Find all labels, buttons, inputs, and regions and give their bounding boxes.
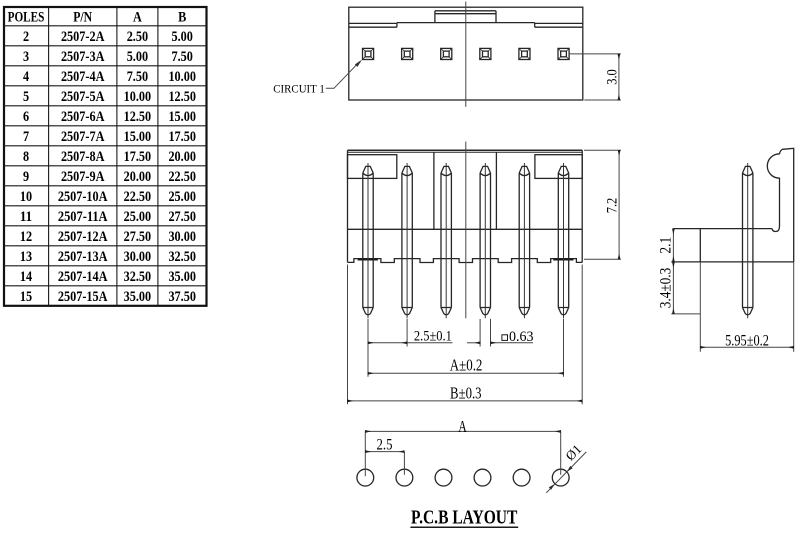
crush rib mark under pin 6 (553, 258, 573, 260)
svg-text:11: 11 (20, 209, 32, 225)
pin hole square 5 (519, 48, 530, 59)
top view body (349, 7, 583, 100)
svg-text:27.50: 27.50 (168, 209, 196, 225)
dimension 3.0 (569, 54, 621, 100)
svg-text:5.00: 5.00 (172, 29, 193, 45)
svg-text:10.00: 10.00 (168, 69, 196, 85)
pin 5 (519, 163, 529, 318)
pcb hole 2 (396, 469, 413, 486)
svg-text:32.50: 32.50 (124, 269, 152, 285)
svg-text:2: 2 (23, 29, 29, 45)
svg-text:A: A (133, 9, 142, 25)
svg-text:2507-2A: 2507-2A (61, 29, 105, 45)
svg-text:2507-4A: 2507-4A (61, 69, 105, 85)
svg-text:17.50: 17.50 (168, 129, 196, 145)
svg-text:15.00: 15.00 (168, 109, 196, 125)
svg-text:32.50: 32.50 (168, 249, 196, 265)
svg-text:CIRCUIT 1: CIRCUIT 1 (273, 81, 325, 95)
svg-text:2507-6A: 2507-6A (61, 109, 105, 125)
svg-text:3.0: 3.0 (604, 69, 620, 85)
svg-text:5.95±0.2: 5.95±0.2 (725, 333, 769, 350)
pcb hole 6 (552, 469, 569, 486)
svg-text:7.50: 7.50 (172, 49, 193, 65)
svg-text:2507-15A: 2507-15A (58, 289, 108, 305)
svg-text:2507-12A: 2507-12A (58, 229, 108, 245)
dimension Ø1 leader (546, 442, 586, 493)
front view top double line (348, 150, 583, 152)
svg-text:22.50: 22.50 (124, 189, 152, 205)
front view body sides (348, 150, 583, 262)
svg-text:6: 6 (23, 109, 30, 125)
svg-text:35.00: 35.00 (168, 269, 196, 285)
pin hole square 4 (480, 48, 491, 59)
front view left end recess (348, 155, 397, 179)
svg-text:7.2: 7.2 (605, 198, 621, 214)
top view center tab (435, 11, 496, 23)
table row dividers (4, 26, 207, 286)
svg-text:2507-9A: 2507-9A (61, 169, 105, 185)
pin 3 (441, 163, 451, 318)
front view partitions (434, 152, 497, 229)
svg-text:17.50: 17.50 (124, 149, 152, 165)
svg-text:0.63: 0.63 (509, 329, 534, 345)
crush rib mark under pin 1 (358, 258, 378, 260)
svg-text:30.00: 30.00 (124, 249, 152, 265)
svg-text:25.00: 25.00 (168, 189, 196, 205)
svg-text:2.5±0.1: 2.5±0.1 (414, 329, 452, 345)
pcb hole 4 (474, 469, 491, 486)
top view section centerline (465, 2, 467, 107)
pin hole square 2 (402, 48, 413, 59)
svg-text:2507-11A: 2507-11A (58, 209, 108, 225)
svg-text:12.50: 12.50 (124, 109, 152, 125)
svg-text:P/N: P/N (73, 9, 92, 25)
svg-text:25.00: 25.00 (124, 209, 152, 225)
front view section centerline (465, 142, 467, 319)
dimension A±0.2 (368, 319, 564, 377)
svg-text:2507-7A: 2507-7A (61, 129, 105, 145)
svg-text:37.50: 37.50 (168, 289, 196, 305)
svg-text:2.5: 2.5 (377, 437, 393, 454)
svg-text:2.50: 2.50 (127, 29, 148, 45)
svg-text:9: 9 (23, 169, 29, 185)
svg-text:20.00: 20.00 (168, 149, 196, 165)
svg-text:2507-8A: 2507-8A (61, 149, 105, 165)
svg-text:35.00: 35.00 (124, 289, 152, 305)
side view wall profile (767, 148, 793, 262)
table outer border (4, 7, 207, 306)
dimension 2.5±0.1 (368, 319, 453, 377)
svg-text:P.C.B LAYOUT: P.C.B LAYOUT (411, 508, 517, 529)
side view pin tip level line (671, 313, 700, 315)
svg-text:13: 13 (20, 249, 32, 265)
pin hole square 6 (558, 48, 569, 59)
svg-text:12: 12 (20, 229, 32, 245)
svg-text:27.50: 27.50 (124, 229, 152, 245)
svg-text:14: 14 (20, 269, 33, 285)
dimension 2.5 (pcb) (365, 437, 404, 475)
pin 2 (402, 163, 412, 318)
side view base block (671, 229, 793, 262)
front view right end recess (535, 155, 582, 179)
pcb hole 3 (435, 469, 452, 486)
svg-text:8: 8 (23, 149, 29, 165)
title P.C.B LAYOUT (410, 508, 518, 529)
side view pin (743, 163, 753, 318)
dimension B±0.3 (348, 265, 583, 405)
svg-text:15.00: 15.00 (124, 129, 152, 145)
front view bottom edge with standoff notches (348, 259, 583, 263)
svg-text:3: 3 (23, 49, 29, 65)
svg-text:12.50: 12.50 (168, 89, 196, 105)
svg-text:2507-14A: 2507-14A (58, 269, 108, 285)
svg-text:22.50: 22.50 (168, 169, 196, 185)
pin 1 (363, 163, 373, 318)
svg-text:10.00: 10.00 (124, 89, 152, 105)
dimension 3.4±0.3 (657, 262, 674, 314)
table text (8, 9, 196, 304)
svg-text:B±0.3: B±0.3 (450, 383, 482, 402)
svg-text:2507-5A: 2507-5A (61, 89, 105, 105)
svg-text:5.00: 5.00 (127, 49, 148, 65)
pcb hole 1 (357, 469, 374, 486)
svg-text:7: 7 (23, 129, 30, 145)
pin 6 (558, 163, 568, 318)
pin hole square 3 (441, 48, 452, 59)
svg-text:30.00: 30.00 (168, 229, 196, 245)
svg-text:B: B (178, 9, 186, 25)
svg-text:5: 5 (23, 89, 29, 105)
pin hole square 1 (363, 48, 374, 59)
svg-text:A: A (458, 417, 467, 436)
svg-text:2.1: 2.1 (657, 237, 674, 254)
svg-text:10: 10 (20, 189, 32, 205)
front view cavity floor line (348, 228, 583, 230)
svg-text:A±0.2: A±0.2 (450, 356, 483, 375)
svg-text:2507-13A: 2507-13A (58, 249, 108, 265)
dimension 5.95±0.2 (700, 262, 793, 352)
svg-text:3.4±0.3: 3.4±0.3 (657, 268, 674, 309)
top view front wall ledge (349, 23, 583, 28)
dimension 2.1 (657, 229, 674, 262)
table column dividers (49, 7, 158, 306)
svg-text:POLES: POLES (8, 9, 45, 25)
CIRCUIT 1 label (273, 60, 362, 96)
pcb hole 5 (513, 469, 530, 486)
dimension square 0.63 (467, 319, 534, 347)
svg-text:2507-10A: 2507-10A (58, 189, 108, 205)
svg-text:4: 4 (23, 69, 30, 85)
dimension 7.2 (584, 150, 621, 259)
dimension A (pcb) (365, 417, 560, 476)
svg-text:15: 15 (20, 289, 32, 305)
svg-text:7.50: 7.50 (127, 69, 148, 85)
svg-text:2507-3A: 2507-3A (61, 49, 105, 65)
svg-text:20.00: 20.00 (124, 169, 152, 185)
pin 4 (480, 163, 490, 318)
